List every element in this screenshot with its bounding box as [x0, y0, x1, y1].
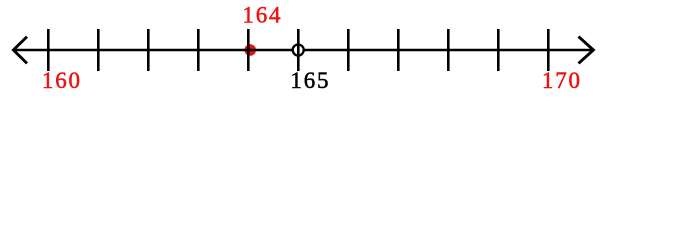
tick 161 — [97, 29, 100, 71]
tick 160 — [47, 29, 50, 71]
tick 168 — [447, 29, 450, 71]
svg-text:165: 165 — [290, 68, 330, 93]
tick 169 — [497, 29, 500, 71]
right arrowhead — [579, 37, 594, 64]
tick 162 — [147, 29, 150, 71]
tick 163 — [197, 29, 200, 71]
tick 167 — [397, 29, 400, 71]
tick 166 — [347, 29, 350, 71]
left arrowhead — [13, 37, 27, 64]
svg-text:164: 164 — [242, 3, 282, 28]
svg-text:170: 170 — [542, 68, 582, 93]
number line (horizontal axis) — [14, 49, 593, 52]
tick 164 — [247, 29, 250, 71]
open circle at 165 (white fill, under ticks) — [293, 45, 304, 56]
svg-text:160: 160 — [42, 68, 82, 93]
point dot at 164 (red, under line/tick) — [244, 44, 256, 56]
tick 170 — [547, 29, 550, 71]
tick 165 — [297, 29, 300, 71]
